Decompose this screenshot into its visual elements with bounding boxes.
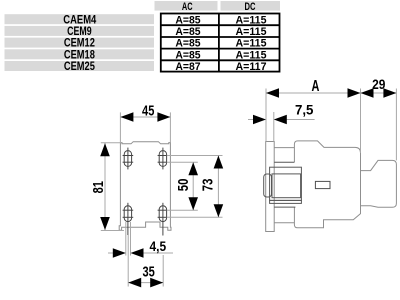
- svg-text:50: 50: [176, 179, 192, 192]
- 50 arrows: [188, 162, 198, 175]
- svg-text:CEM25: CEM25: [64, 61, 95, 73]
- svg-text:A=115: A=115: [236, 38, 267, 50]
- svg-text:A=87: A=87: [175, 61, 200, 73]
- dim 4,5: [125, 222, 127, 256]
- 73 arrows: [214, 156, 224, 169]
- 4,5 arrows: [113, 248, 126, 258]
- 29 arrows: [361, 88, 374, 98]
- dim 50/73 ext lines: [167, 155, 223, 157]
- arrows front view: [100, 112, 223, 287]
- A arrows: [266, 88, 279, 98]
- values: [175, 14, 266, 73]
- svg-text:A=85: A=85: [175, 49, 200, 61]
- svg-text:CEM9: CEM9: [67, 26, 92, 38]
- svg-text:A=115: A=115: [236, 14, 267, 26]
- 35 arrows: [128, 278, 141, 288]
- svg-text:A=115: A=115: [236, 26, 267, 38]
- svg-text:CEM12: CEM12: [64, 38, 95, 50]
- tab: [264, 174, 272, 197]
- svg-text:AC: AC: [182, 1, 193, 13]
- slot bottom-left: [123, 203, 134, 235]
- collar lines: [264, 162, 302, 207]
- svg-text:A=85: A=85: [175, 26, 200, 38]
- svg-text:A=85: A=85: [175, 14, 200, 26]
- ledge bottom: [274, 222, 294, 224]
- mounting flange: [266, 142, 275, 232]
- svg-text:A=85: A=85: [175, 38, 200, 50]
- dim 45 ext lines: [119, 112, 121, 142]
- coil plate: [270, 167, 302, 200]
- end cap: [361, 160, 397, 207]
- body: [294, 141, 360, 228]
- ledge top: [274, 147, 294, 149]
- svg-text:29: 29: [372, 76, 385, 92]
- coil window: [272, 174, 301, 198]
- body outline: [119, 142, 171, 231]
- svg-text:A=115: A=115: [236, 49, 267, 61]
- svg-text:DC: DC: [245, 1, 256, 13]
- svg-text:A=117: A=117: [236, 61, 267, 73]
- table grid: [161, 14, 280, 72]
- slot top-left: [123, 148, 134, 170]
- slot bottom-right: [158, 203, 167, 236]
- svg-text:A: A: [311, 78, 319, 95]
- svg-text:73: 73: [200, 179, 216, 192]
- dim 35: [127, 235, 129, 287]
- 81 arrows: [100, 143, 110, 156]
- slots: [123, 148, 167, 236]
- 45 arrows: [120, 112, 133, 122]
- svg-text:CAEM4: CAEM4: [63, 14, 96, 26]
- svg-text:45: 45: [142, 103, 154, 119]
- svg-text:81: 81: [91, 181, 107, 193]
- slot top-right: [158, 148, 167, 170]
- small rect hole: [315, 181, 330, 188]
- dim 81 ext lines: [101, 142, 122, 144]
- grey row bars: [5, 14, 155, 24]
- header cells: [155, 1, 218, 11]
- svg-text:4,5: 4,5: [150, 238, 167, 254]
- svg-text:CEM18: CEM18: [64, 49, 95, 61]
- dim texts front: [91, 103, 217, 280]
- svg-text:35: 35: [142, 265, 154, 281]
- svg-text:7,5: 7,5: [295, 101, 314, 117]
- 7,5 arrows: [253, 115, 266, 125]
